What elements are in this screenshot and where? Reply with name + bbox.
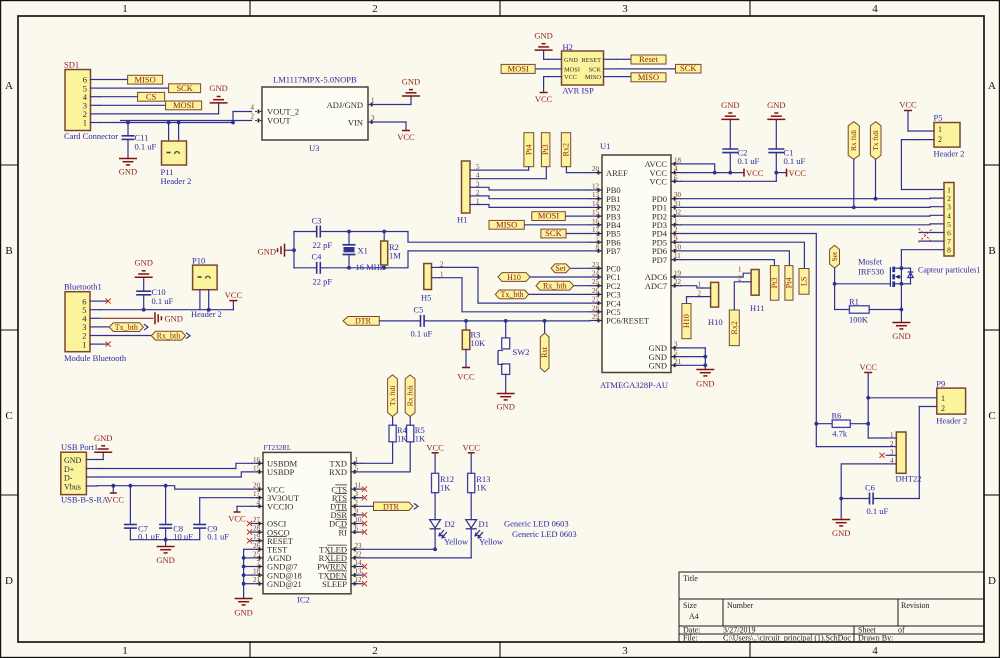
svg-text:VCC: VCC: [457, 372, 475, 382]
svg-text:GND: GND: [721, 100, 739, 110]
svg-text:AREF: AREF: [606, 168, 628, 178]
wire C9 to IC2 3V3OUT: [200, 497, 252, 499]
power VCC above DHT22: [859, 362, 877, 398]
vertical net label Pt4 right: [785, 266, 794, 301]
wire DHT pin4 to ground: [841, 464, 886, 499]
svg-text:22 pF: 22 pF: [313, 240, 333, 250]
wire PD4 down to DHT22: [681, 234, 886, 447]
svg-text:of: of: [898, 626, 905, 635]
svg-text:GND: GND: [402, 77, 420, 87]
connector USB Port1 USB-B-S-RA: [61, 442, 109, 505]
net label SCK at PB5: [541, 228, 590, 238]
power VCC above R12: [426, 442, 444, 473]
connector H1: [457, 161, 480, 225]
svg-text:P10: P10: [192, 256, 205, 266]
svg-text:H1: H1: [457, 215, 467, 225]
net label Set vertical: [830, 245, 840, 283]
resistor R6 4.7k: [816, 411, 868, 439]
connector H10: [698, 281, 723, 327]
svg-text:10: 10: [355, 516, 363, 524]
svg-text:22 pF: 22 pF: [313, 277, 333, 287]
ground at crystal: [258, 244, 296, 257]
svg-text:GND: GND: [649, 361, 667, 371]
svg-text:USB-B-S-RA: USB-B-S-RA: [61, 495, 109, 505]
wire RXLED to D1: [363, 557, 472, 559]
wire sensor pin6 stub: [919, 232, 944, 234]
svg-text:Header 2: Header 2: [936, 416, 967, 426]
wire PD2 to sensor pin4: [681, 214, 944, 217]
svg-text:VCC: VCC: [462, 442, 480, 452]
capacitor C9 0.1uF: [193, 498, 229, 542]
power VCC right of C2: [744, 168, 764, 178]
svg-text:Bluetooth1: Bluetooth1: [64, 282, 102, 292]
net label MISO at H2: [617, 72, 666, 82]
wire VCC to DHT pin1: [866, 398, 886, 438]
svg-text:C5: C5: [414, 305, 424, 315]
wire cap bottoms to ground: [130, 538, 199, 547]
no-ERC cross at DHT pin3: [879, 453, 884, 458]
svg-text:VCC: VCC: [535, 94, 553, 104]
svg-text:VCC: VCC: [397, 132, 415, 142]
svg-text:1: 1: [83, 118, 87, 128]
svg-text:ADJ/GND: ADJ/GND: [327, 100, 363, 110]
power VCC above R13: [462, 442, 480, 473]
wire crystal to PB7: [384, 251, 590, 268]
svg-text:1K: 1K: [476, 482, 487, 492]
svg-text:H11: H11: [750, 303, 764, 313]
svg-text:Rx2: Rx2: [730, 321, 739, 334]
svg-text:Vbus: Vbus: [64, 482, 81, 491]
svg-text:MOSI: MOSI: [508, 64, 529, 74]
ground above C1: [767, 100, 785, 119]
svg-text:Set: Set: [555, 264, 566, 273]
wire PD1 to sensor pin3: [681, 206, 944, 210]
vertical net label H10 below: [682, 297, 703, 339]
vertical net label Rx ftdi at PD1: [848, 122, 859, 208]
wire TXD to R4: [363, 442, 393, 464]
svg-text:Generic LED 0603: Generic LED 0603: [504, 519, 569, 529]
svg-text:A4: A4: [689, 612, 699, 621]
net label H10 at PC1: [498, 273, 590, 282]
svg-text:2: 2: [941, 404, 945, 413]
svg-text:Card Connector: Card Connector: [64, 131, 118, 141]
svg-text:1: 1: [82, 339, 86, 349]
wire PD6 to Pt4 label: [681, 251, 789, 266]
svg-text:GND: GND: [234, 608, 252, 618]
svg-text:DHT22: DHT22: [896, 474, 922, 484]
svg-text:GND: GND: [892, 331, 910, 341]
svg-text:Module Bluetooth: Module Bluetooth: [64, 353, 127, 363]
svg-text:MOSI: MOSI: [173, 100, 194, 110]
ground above C2: [721, 100, 739, 119]
wire H1 pin3 to PB0: [478, 187, 590, 190]
vertical net label Rx2 above U1 (to AREF): [561, 133, 590, 173]
wire mosfet drain to sensor pin8: [901, 250, 944, 269]
svg-text:GND: GND: [94, 433, 112, 443]
net label DTR at reset net: [343, 317, 421, 326]
vertical net label Rx ftdi above R5: [405, 375, 415, 417]
svg-text:SCK: SCK: [176, 83, 193, 93]
connector H5: [421, 260, 444, 302]
svg-text:Tx_bth: Tx_bth: [500, 290, 523, 299]
svg-text:VCC: VCC: [789, 168, 807, 178]
net label Rx_bth at PC2: [536, 281, 590, 290]
svg-text:GND: GND: [119, 167, 137, 177]
svg-text:GND: GND: [64, 456, 82, 465]
svg-text:C: C: [5, 410, 12, 422]
connector H2 AVR ISP: [548, 42, 617, 96]
net label DTR at IC2: [363, 502, 419, 511]
svg-text:VCCIO: VCCIO: [267, 502, 293, 512]
svg-text:2: 2: [372, 645, 378, 657]
svg-text:SD1: SD1: [64, 60, 79, 70]
svg-text:1: 1: [122, 645, 128, 657]
resistor R1 100K: [835, 284, 902, 325]
svg-text:MISO: MISO: [585, 74, 601, 81]
ground below C6: [832, 499, 850, 539]
capacitor C8 10uF: [159, 486, 193, 542]
wire H5 pin1 to PC5: [440, 278, 590, 312]
svg-text:SCK: SCK: [680, 63, 697, 73]
no-ERC cross at Bluetooth pin1: [100, 342, 111, 347]
net label CS: [100, 91, 165, 101]
svg-text:GND: GND: [767, 100, 785, 110]
power VCC at Vbus: [107, 486, 125, 505]
svg-text:U3: U3: [309, 143, 319, 153]
svg-text:IRF530: IRF530: [858, 267, 884, 277]
wire USB Vbus to IC2 VCC: [97, 484, 252, 489]
svg-text:Tx ftdi: Tx ftdi: [871, 130, 880, 151]
net label Reset: [617, 54, 666, 64]
svg-text:GND: GND: [134, 258, 152, 268]
svg-text:0.1 uF: 0.1 uF: [867, 506, 889, 516]
svg-text:C3: C3: [312, 216, 322, 226]
net label MISO: [100, 74, 163, 84]
svg-text:C6: C6: [865, 483, 875, 493]
svg-text:GND: GND: [564, 57, 578, 64]
net label SCK at H2: [617, 63, 701, 73]
svg-text:H5: H5: [421, 293, 431, 303]
wire PD0 to sensor pin2: [681, 197, 944, 201]
resistor R13 1K: [468, 473, 491, 519]
svg-text:1: 1: [941, 394, 945, 403]
capacitor C11 0.1uF: [122, 123, 157, 159]
wire H5 pin2 to PC4: [440, 267, 590, 303]
ground above C10: [134, 258, 152, 278]
voltage regulator U3 LM1117MPX-5.0NOPB: [251, 75, 376, 154]
svg-text:0.1 uF: 0.1 uF: [411, 329, 433, 339]
net label SCK: [100, 83, 201, 93]
svg-text:1M: 1M: [389, 251, 401, 261]
svg-text:GND@21: GND@21: [267, 579, 302, 589]
svg-text:R1: R1: [849, 297, 859, 307]
svg-text:10K: 10K: [471, 338, 487, 348]
svg-text:X1: X1: [358, 246, 368, 256]
svg-text:16 MHz: 16 MHz: [356, 262, 384, 272]
svg-text:Header 2: Header 2: [161, 176, 192, 186]
wire Bluetooth pin5 net: [100, 308, 200, 312]
svg-text:P9: P9: [936, 379, 945, 389]
svg-text:Rx_bth: Rx_bth: [157, 332, 181, 341]
svg-text:USB Port1: USB Port1: [61, 442, 98, 452]
wire U1 VCC pin6 to C1: [681, 153, 787, 182]
svg-text:2: 2: [938, 135, 942, 144]
connector Bluetooth1 Module Bluetooth: [64, 282, 127, 363]
svg-text:0.1 uF: 0.1 uF: [207, 532, 229, 542]
svg-text:DTR: DTR: [383, 503, 400, 512]
svg-text:Pt3: Pt3: [770, 278, 779, 289]
crystal X1 16 MHz: [343, 230, 384, 272]
wire U1 GND pins to ground: [681, 348, 707, 370]
svg-text:VCC: VCC: [225, 290, 243, 300]
svg-text:RESET: RESET: [581, 57, 601, 64]
connector P9 Header 2: [866, 379, 967, 426]
capacitor C4 22pF: [294, 252, 349, 287]
power VCC at IC2 VCCIO: [228, 506, 251, 523]
svg-text:Rx2: Rx2: [562, 143, 571, 156]
wire U3 VIN to VCC: [368, 122, 406, 131]
svg-text:SW2: SW2: [513, 347, 530, 357]
svg-text:3: 3: [622, 3, 628, 15]
wire sensor pin7 stub: [919, 240, 944, 242]
svg-text:0.1 uF: 0.1 uF: [152, 296, 174, 306]
svg-text:Tx ftdi: Tx ftdi: [388, 385, 397, 406]
svg-text:22: 22: [355, 550, 363, 558]
svg-text:A: A: [5, 80, 13, 92]
title block: [679, 572, 984, 643]
net label Rx_bth at Bluetooth pin2: [100, 331, 190, 340]
svg-text:Rx ftdi: Rx ftdi: [406, 385, 415, 406]
connector DHT22: [886, 431, 921, 483]
svg-text:GND: GND: [696, 379, 714, 389]
no-ERC cross at Bluetooth pin6: [100, 299, 111, 304]
net label Tx_bth at PC3: [495, 290, 590, 299]
svg-text:VOUT: VOUT: [267, 116, 291, 126]
svg-text:MISO: MISO: [496, 219, 517, 229]
net label MOSI at H2: [501, 64, 548, 74]
svg-text:MOSI: MOSI: [564, 67, 580, 74]
svg-text:1: 1: [938, 125, 942, 134]
ground below mosfet: [892, 323, 910, 342]
capacitor C3 22pF: [294, 216, 349, 251]
svg-text:MOSI: MOSI: [538, 211, 559, 221]
svg-text:1K: 1K: [440, 482, 451, 492]
svg-text:GND: GND: [258, 247, 276, 257]
svg-text:VIN: VIN: [348, 118, 363, 128]
svg-text:Pt4: Pt4: [785, 278, 794, 289]
connector P10 Header 2: [191, 256, 233, 319]
svg-text:Header 2: Header 2: [934, 149, 965, 159]
svg-text:1: 1: [122, 3, 128, 15]
wire U3 ADJ/GND pin1 to ground: [368, 96, 411, 105]
svg-text:Rx_bth: Rx_bth: [543, 282, 567, 291]
svg-text:D: D: [5, 575, 13, 587]
svg-text:Rst: Rst: [540, 346, 549, 357]
svg-text:AVR ISP: AVR ISP: [563, 86, 595, 96]
svg-text:A: A: [988, 80, 996, 92]
svg-text:GND: GND: [496, 402, 514, 412]
power VCC right of C1: [787, 168, 807, 178]
svg-text:Number: Number: [727, 601, 754, 610]
net label MISO at PB4: [489, 219, 590, 229]
svg-text:PC6/RESET: PC6/RESET: [606, 316, 650, 326]
svg-text:ATMEGA328P-AU: ATMEGA328P-AU: [600, 380, 668, 390]
power VCC right of P10: [225, 290, 243, 310]
svg-text:PB7: PB7: [606, 246, 621, 256]
svg-text:C:\Users\..\circuit_principal: C:\Users\..\circuit_principal (1).SchDoc: [723, 634, 851, 643]
svg-text:1K: 1K: [415, 434, 426, 444]
svg-text:1: 1: [738, 266, 742, 274]
svg-text:SCK: SCK: [545, 228, 562, 238]
svg-text:Reset: Reset: [639, 54, 659, 64]
resistor R12 1K: [432, 473, 455, 519]
svg-text:Header 2: Header 2: [191, 309, 222, 319]
svg-text:VCC: VCC: [228, 514, 246, 524]
svg-text:IC2: IC2: [297, 595, 310, 605]
wire USB D- to IC2 USBDP: [97, 472, 252, 477]
ground at U3 ADJ: [402, 77, 420, 97]
svg-text:GND: GND: [832, 528, 850, 538]
wire PD7 to Pt3 label: [681, 260, 774, 266]
wire SD1 pin1 to U3: [100, 112, 252, 125]
wire H1 pin1 to PB2: [478, 205, 590, 208]
wire IC2 TEST/AGND/GND pins to ground: [242, 549, 252, 598]
svg-text:12: 12: [355, 576, 363, 584]
ground at SD1 pin 2: [100, 83, 228, 114]
LED D1 Yellow: [466, 519, 504, 558]
wire crystal to PB6: [384, 232, 590, 243]
wire P5 pin2 to sensor pin1: [901, 140, 944, 190]
vertical net label Pt4 above U1: [478, 133, 534, 170]
vertical net label Pt3 above U1: [478, 133, 550, 179]
resistor R3 10K: [462, 319, 486, 368]
svg-text:PD7: PD7: [652, 255, 667, 265]
svg-text:100K: 100K: [849, 315, 869, 325]
svg-text:0.1 uF: 0.1 uF: [135, 142, 157, 152]
svg-text:R6: R6: [832, 411, 842, 421]
svg-text:GND: GND: [534, 31, 552, 41]
svg-text:0.1 uF: 0.1 uF: [738, 156, 760, 166]
svg-text:SCK: SCK: [589, 67, 602, 74]
vertical net label Tx ftdi above R4: [388, 375, 398, 417]
svg-text:FT232RL: FT232RL: [264, 444, 292, 452]
svg-text:VCC: VCC: [859, 362, 877, 372]
svg-text:4: 4: [872, 645, 878, 657]
svg-text:4.7k: 4.7k: [832, 429, 848, 439]
power VCC at U3 VIN: [397, 131, 415, 143]
svg-text:P5: P5: [934, 113, 943, 123]
connector H11: [738, 266, 764, 313]
power VCC at H2: [535, 77, 553, 104]
svg-text:Revision: Revision: [901, 601, 929, 610]
svg-text:C4: C4: [312, 252, 323, 262]
wire H1 pin2 to PB1: [478, 196, 590, 199]
svg-text:2: 2: [251, 113, 255, 121]
capacitor C1 0.1uF: [768, 119, 805, 166]
svg-text:ADC7: ADC7: [645, 281, 667, 291]
svg-text:Set: Set: [830, 251, 839, 262]
wire USB D+ to IC2 USBDM: [97, 463, 252, 468]
net label Set at PC0: [551, 264, 590, 273]
svg-text:D1: D1: [479, 519, 489, 529]
svg-text:VCC: VCC: [899, 100, 917, 110]
svg-text:D2: D2: [445, 519, 455, 529]
svg-text:MISO: MISO: [134, 74, 155, 84]
svg-text:LM1117MPX-5.0NOPB: LM1117MPX-5.0NOPB: [273, 75, 357, 85]
resistor R4 1K: [389, 417, 408, 444]
resistor R5 1K: [407, 417, 426, 444]
power VCC above P5: [899, 100, 917, 132]
connector P11 Header 2: [161, 122, 192, 187]
resistor R2 1M: [349, 230, 401, 270]
svg-text:Pt3: Pt3: [541, 144, 550, 155]
wire U1 AVCC/VCC to VCC rail: [681, 164, 744, 175]
text Generic LED 0603: [504, 519, 577, 540]
switch SW2: [498, 319, 530, 374]
wire ADC6 to H11: [681, 273, 751, 277]
no-ERC crosses IC2 right pins: [362, 487, 367, 587]
svg-text:Capteur particules1: Capteur particules1: [918, 266, 980, 275]
svg-text:B: B: [5, 245, 12, 257]
svg-text:RI: RI: [339, 527, 348, 537]
net label Tx_bth at Bluetooth pin3: [100, 323, 148, 332]
ground below SW2: [496, 374, 514, 411]
svg-text:VCC: VCC: [564, 74, 577, 81]
capacitor C2 0.1uF: [722, 119, 759, 172]
wire mosfet source to ground: [900, 284, 904, 323]
usb-serial IC2 FT232RL: [252, 444, 363, 605]
svg-text:Generic LED 0603: Generic LED 0603: [512, 529, 577, 539]
capacitor C6 0.1uF: [839, 483, 919, 517]
wire crystal left rail: [293, 232, 295, 268]
svg-text:4: 4: [872, 3, 878, 15]
vertical net label Rst: [540, 319, 549, 372]
wire PD5 to LS label: [681, 242, 804, 268]
capacitor C5 0.1uF: [411, 305, 591, 339]
svg-text:DTR: DTR: [355, 317, 372, 326]
ground below C11: [119, 159, 137, 177]
svg-text:H10: H10: [708, 317, 723, 327]
svg-text:VCC: VCC: [426, 442, 444, 452]
vertical net label Tx ftdi at PD0: [870, 122, 881, 199]
vertical net label LS: [799, 269, 809, 295]
svg-text:VCC: VCC: [650, 177, 668, 187]
svg-text:0.1 uF: 0.1 uF: [784, 156, 806, 166]
vertical net label Rx2 below H11: [729, 282, 743, 346]
svg-text:Drawn By:: Drawn By:: [858, 634, 893, 643]
svg-text:Mosfet: Mosfet: [858, 257, 883, 267]
connector Capteur particules1: [918, 183, 980, 275]
ground at USB: [94, 433, 112, 460]
capacitor C7 0.1uF: [124, 486, 160, 542]
wire PD3 to sensor pin5: [681, 223, 944, 226]
svg-text:U1: U1: [600, 141, 610, 151]
svg-text:VCC: VCC: [746, 168, 764, 178]
ground below C8: [156, 547, 174, 566]
svg-text:VCC: VCC: [107, 495, 125, 505]
wire P9 pin2 down: [918, 407, 920, 499]
wire ADC7 to H10: [681, 286, 703, 288]
svg-text:1: 1: [698, 281, 702, 289]
svg-text:Size: Size: [683, 601, 697, 610]
svg-text:2: 2: [738, 274, 742, 282]
svg-text:LS: LS: [800, 277, 809, 286]
svg-text:D: D: [988, 575, 996, 587]
svg-text:CS: CS: [146, 91, 157, 101]
svg-text:14: 14: [355, 559, 363, 567]
svg-text:GND: GND: [165, 314, 183, 324]
capacitor C10 0.1uF: [136, 277, 173, 310]
